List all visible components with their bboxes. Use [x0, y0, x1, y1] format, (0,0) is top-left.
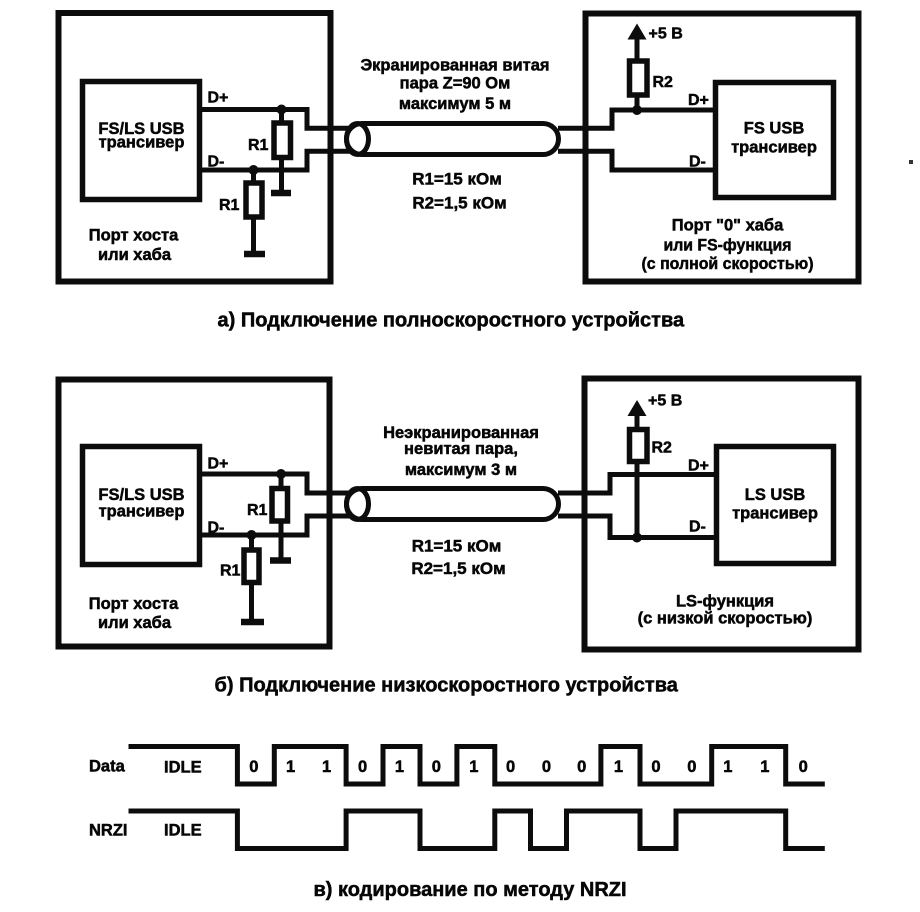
svg-text:D+: D+: [208, 456, 229, 473]
svg-text:0: 0: [432, 758, 441, 776]
svg-text:Порт хоста: Порт хоста: [89, 595, 179, 613]
scan speck (right edge): [909, 160, 913, 164]
svg-text:R1: R1: [220, 563, 241, 580]
svg-text:R2: R2: [652, 440, 673, 457]
svg-text:(с полной скоростью): (с полной скоростью): [642, 255, 814, 273]
svg-text:Порт хоста: Порт хоста: [89, 227, 179, 245]
svg-text:1: 1: [286, 758, 295, 776]
svg-text:максимум 5 м: максимум 5 м: [399, 95, 511, 113]
svg-text:0: 0: [542, 758, 551, 776]
svg-text:R2=1,5 кОм: R2=1,5 кОм: [411, 559, 505, 578]
LS USB transceiver box (b): [717, 447, 834, 564]
svg-text:D+: D+: [208, 90, 229, 107]
wire D- host-to-cable (a): [202, 151, 352, 170]
resistor R1 on D- (a): [251, 170, 256, 185]
svg-text:R2=1,5 кОм: R2=1,5 кОм: [412, 194, 506, 213]
wire D+ cable-to-device (b): [558, 475, 714, 494]
svg-text:0: 0: [577, 758, 586, 776]
svg-text:или хаба: или хаба: [98, 246, 172, 264]
svg-text:0: 0: [249, 758, 258, 776]
Data waveform: [129, 747, 825, 785]
FS/LS USB transceiver box (section a): [83, 82, 200, 200]
resistor R1 on D- (b): [249, 535, 254, 552]
resistor R2 pull-up (b): [635, 414, 640, 432]
svg-text:R1: R1: [219, 197, 240, 214]
svg-text:D-: D-: [689, 154, 706, 171]
svg-text:D+: D+: [688, 458, 709, 475]
junction node R2/D+ (a): [632, 105, 642, 115]
cable shield capsule (a): [347, 124, 559, 155]
resistor R1 on D+ (b): [279, 474, 284, 491]
svg-text:трансивер: трансивер: [99, 503, 185, 521]
svg-text:+5 В: +5 В: [649, 26, 683, 43]
svg-text:Экранированная витая: Экранированная витая: [360, 57, 549, 75]
svg-text:пара Z=90 Ом: пара Z=90 Ом: [400, 75, 511, 93]
svg-text:трансивер: трансивер: [99, 134, 185, 152]
svg-text:или хаба: или хаба: [98, 614, 172, 632]
svg-text:(с низкой скоростью): (с низкой скоростью): [638, 610, 813, 628]
svg-text:NRZI: NRZI: [89, 822, 128, 840]
cable capsule (b): [347, 489, 559, 520]
NRZI waveform: [129, 811, 825, 849]
svg-text:0: 0: [506, 758, 515, 776]
svg-text:+5 В: +5 В: [648, 393, 682, 410]
wire D- cable-to-device (a): [558, 151, 714, 170]
resistor R1 on D+ (a): [279, 110, 284, 126]
cable end ellipse (b): [347, 489, 369, 520]
ground for R1 on D- (a): [244, 251, 265, 258]
svg-text:FS/LS USB: FS/LS USB: [98, 486, 184, 504]
wire D+ host-to-cable (b): [202, 474, 352, 493]
svg-text:LS USB: LS USB: [745, 486, 806, 504]
svg-text:R1=15 кОм: R1=15 кОм: [412, 537, 502, 556]
FS USB transceiver box (a): [716, 83, 834, 198]
svg-text:R1: R1: [247, 502, 268, 519]
svg-text:LS-функция: LS-функция: [676, 593, 774, 611]
svg-text:D-: D-: [689, 519, 706, 536]
svg-text:трансивер: трансивер: [732, 505, 818, 523]
wire D+ cable-to-device (a): [558, 110, 714, 128]
svg-text:FS USB: FS USB: [744, 120, 805, 138]
svg-text:или FS-функция: или FS-функция: [664, 237, 792, 255]
svg-text:невитая пара,: невитая пара,: [404, 440, 518, 458]
outer box: LS function (section b): [585, 379, 859, 650]
outer box: host port (section b): [59, 380, 330, 647]
outer box: host port (section a): [59, 13, 331, 282]
svg-text:Порт "0" хаба: Порт "0" хаба: [672, 217, 784, 235]
svg-text:0: 0: [799, 758, 808, 776]
svg-text:1: 1: [395, 758, 404, 776]
svg-text:IDLE: IDLE: [164, 822, 202, 840]
+5V arrow (b): [628, 400, 647, 416]
resistor R2 pull-up (a): [635, 36, 640, 63]
svg-text:D+: D+: [688, 92, 709, 109]
junction node D+ (b): [276, 469, 286, 479]
wire D- host-to-cable (b): [202, 516, 352, 535]
svg-text:0: 0: [687, 758, 696, 776]
svg-text:Data: Data: [89, 758, 126, 776]
svg-text:в) кодирование по методу NRZI: в) кодирование по методу NRZI: [313, 879, 626, 901]
svg-text:1: 1: [723, 758, 732, 776]
+5V arrow (a): [628, 24, 647, 40]
svg-text:IDLE: IDLE: [164, 759, 202, 777]
FS/LS USB transceiver box (section b): [83, 447, 200, 565]
wire D+ host-to-cable (a): [202, 110, 352, 129]
svg-text:1: 1: [322, 758, 331, 776]
outer box: hub port (section a): [586, 14, 859, 282]
svg-text:максимум 3 м: максимум 3 м: [405, 461, 517, 479]
ground for R1 on D+ (a): [271, 190, 291, 197]
svg-text:R1=15 кОм: R1=15 кОм: [412, 170, 502, 189]
svg-text:0: 0: [651, 758, 660, 776]
svg-text:б) Подключение низкоскоростног: б) Подключение низкоскоростного устройст…: [215, 675, 679, 697]
svg-text:1: 1: [614, 758, 623, 776]
junction node D- (b): [247, 530, 257, 540]
junction node D- (a): [249, 165, 259, 175]
svg-text:R2: R2: [653, 74, 674, 91]
wire D- cable-to-device (b): [558, 516, 714, 538]
cable end ellipse (a): [347, 124, 369, 155]
wire R2-to-D- crossing D+ (b): [635, 461, 640, 538]
svg-text:1: 1: [760, 758, 769, 776]
junction node D+ (a): [277, 105, 287, 115]
ground for R1 on D- (b): [241, 619, 264, 626]
svg-text:а) Подключение полноскоростног: а) Подключение полноскоростного устройст…: [217, 310, 684, 332]
svg-text:0: 0: [358, 758, 367, 776]
svg-text:1: 1: [469, 758, 478, 776]
svg-text:трансивер: трансивер: [731, 139, 817, 157]
ground for R1 on D+ (b): [270, 557, 291, 564]
Data bit value labels: [249, 758, 807, 776]
svg-text:R1: R1: [248, 137, 269, 154]
junction node R2/D- (b): [632, 533, 642, 543]
